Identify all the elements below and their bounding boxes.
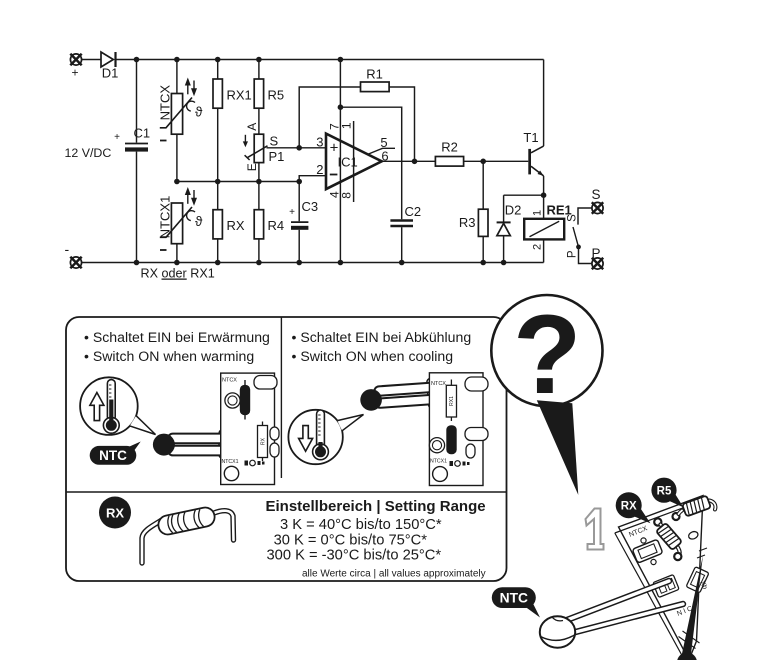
svg-text:NTCX: NTCX [431,381,446,387]
svg-text:• Switch ON when cooling: • Switch ON when cooling [292,348,454,364]
wire R1 to output [389,87,414,161]
node bottom C1 [134,260,140,266]
svg-text:+: + [289,207,295,218]
svg-text:Einstellbereich | Setting Rang: Einstellbereich | Setting Range [266,498,486,515]
svg-text:30 K = 0°C bis/to 75°C*: 30 K = 0°C bis/to 75°C* [274,532,428,548]
svg-text:NTC: NTC [99,448,127,463]
svg-text:D1: D1 [102,66,119,81]
svg-text:• Switch ON when warming: • Switch ON when warming [84,348,254,364]
resistor RX illustration [142,506,234,563]
node middle R4 [256,179,262,185]
RX pill label board [616,492,651,523]
PCB board [615,496,709,660]
svg-text:-: - [65,241,70,257]
node bottom RX [215,260,221,266]
svg-text:R4: R4 [268,218,285,233]
svg-text:S: S [270,134,279,149]
wire middle rail [177,181,299,183]
svg-text:?: ? [513,292,581,417]
cooling icon circle [288,410,363,464]
resistor RX1 [213,60,252,182]
resistor R3 [459,161,488,262]
wire pin2 jog [299,176,326,182]
wire R2 to base [464,160,529,162]
numeral 1 [586,509,604,550]
NTC sensor bead big [540,616,575,647]
svg-text:NTC: NTC [500,591,528,606]
svg-text:C1: C1 [134,126,151,141]
svg-text:ϑ: ϑ [195,214,203,229]
R5 pill label board [651,478,683,508]
svg-text:S: S [566,214,578,222]
svg-text:RX: RX [621,501,637,513]
switch lever [573,227,579,247]
PCB fragment right [429,373,488,486]
switch contact P [566,247,592,264]
terminal + (top left) [70,54,81,80]
svg-text:C3: C3 [302,199,319,214]
svg-text:ϑ: ϑ [195,105,203,120]
node bottom NTCX1 [174,260,180,266]
balloon circle [491,295,602,406]
resistor R4 [254,182,284,263]
svg-text:300 K = -30°C bis/to 25°C*: 300 K = -30°C bis/to 25°C* [267,548,442,564]
wire bottom rail [82,262,544,264]
svg-text:NTCX: NTCX [222,378,237,384]
svg-text:RX1: RX1 [449,396,455,406]
terminal S [591,187,603,214]
capacitor C3 [289,182,318,263]
RX pill label [99,497,131,529]
node middle RX [215,179,221,185]
node top C1 [134,57,140,63]
svg-text:NTCX1: NTCX1 [430,459,447,465]
node emitter [541,192,547,198]
node bottom C2 [399,260,405,266]
NTC sensor bead left [153,430,241,459]
box horizontal divider [66,491,507,493]
NTC sensor bead right [374,377,448,412]
svg-text:NTCX1: NTCX1 [222,459,239,465]
svg-text:+: + [71,66,78,80]
node bottom C3 [296,260,302,266]
node pin3 [296,145,302,151]
relay RE1 [524,195,572,262]
svg-text:RX oder RX1: RX oder RX1 [141,267,215,281]
svg-text:A: A [245,123,259,131]
NTC pill label big [492,587,540,617]
wire wiper to pin3 [267,147,327,149]
svg-text:S: S [591,187,600,202]
resistor RX [213,182,245,263]
wire to C2 [340,107,401,219]
svg-text:P1: P1 [269,149,285,164]
svg-text:8: 8 [340,192,354,199]
svg-text:RX1: RX1 [227,88,252,103]
node top IC1 supply [338,57,344,63]
box frame [66,317,507,581]
warming icon circle [80,377,155,435]
capacitor C2 [390,204,421,263]
svg-text:R2: R2 [441,140,458,155]
svg-text:R5: R5 [268,88,285,103]
potentiometer P1 [243,123,285,182]
thermistor NTCX [158,60,204,182]
wire feedback to R1 [299,87,360,148]
svg-text:E: E [245,163,259,171]
switch contact S [566,208,592,225]
svg-text:RX: RX [227,218,245,233]
svg-text:3: 3 [316,135,323,150]
resistor R1 [361,67,390,92]
diode D1 [101,52,118,81]
svg-text:IC1: IC1 [338,155,358,170]
svg-text:C2: C2 [405,204,422,219]
switch pivot node [576,245,581,250]
wire top rail [82,59,102,61]
pointer wedge bottom [682,555,704,658]
capacitor C1 [114,60,150,263]
svg-text:1: 1 [340,122,354,129]
resistor RX coil on board [654,518,682,560]
PCB fragment left [221,373,279,484]
resistor R2 [435,140,463,167]
op-amp IC1 [316,60,395,263]
svg-text:R1: R1 [366,67,383,82]
node top RX1 [215,57,221,63]
node IC1 supply branch [338,104,344,110]
terminal - (bottom left) [65,241,82,268]
resistor R5 coil on board [673,495,716,520]
balloon tail [537,400,579,495]
svg-text:alle Werte circa | all values: alle Werte circa | all values approximat… [302,569,486,580]
wire output [382,160,436,162]
NTC pill label left [90,442,141,465]
node bottom D2 [501,260,507,266]
svg-text:1: 1 [531,210,543,216]
node base/R3 [480,159,486,165]
cut-off pill bottom [677,653,697,660]
node top NTCX [174,57,180,63]
NTC sensor long leads [563,581,683,635]
svg-text:• Schaltet EIN bei Erwärmung: • Schaltet EIN bei Erwärmung [84,329,270,345]
svg-text:12 V/DC: 12 V/DC [65,146,112,160]
svg-text:+: + [114,132,120,143]
resistor R5 [254,60,284,135]
svg-text:RX: RX [106,505,124,520]
terminal P [591,246,603,269]
svg-text:2: 2 [531,244,543,250]
box vertical divider [280,317,282,478]
node output [412,159,418,165]
svg-text:P: P [566,250,578,258]
wire collector drop [543,60,545,147]
node bottom R4 [256,260,262,266]
thermistor NTCX1 [158,187,204,263]
transistor T1 [523,130,543,195]
svg-text:• Schaltet EIN bei Abkühlung: • Schaltet EIN bei Abkühlung [292,329,472,345]
svg-text:3 K = 40°C bis/to 150°C*: 3 K = 40°C bis/to 150°C* [280,517,442,533]
svg-text:P: P [591,246,600,261]
wire emitter node [504,194,544,196]
node middle pin2 [296,179,302,185]
svg-text:T1: T1 [523,130,538,145]
node bottom IC1 [338,260,344,266]
wire top rail main [117,59,544,61]
svg-text:R3: R3 [459,215,476,230]
svg-text:NTCX: NTCX [158,85,173,121]
svg-text:2: 2 [316,162,323,177]
svg-text:D2: D2 [505,203,522,218]
node middle NTCX [174,179,180,185]
svg-text:R5: R5 [657,486,672,498]
node top R5 [256,57,262,63]
svg-text:RX: RX [260,437,266,445]
diode D2 [497,195,522,262]
svg-text:NTCX1: NTCX1 [158,196,173,239]
node bottom R3 [480,260,486,266]
